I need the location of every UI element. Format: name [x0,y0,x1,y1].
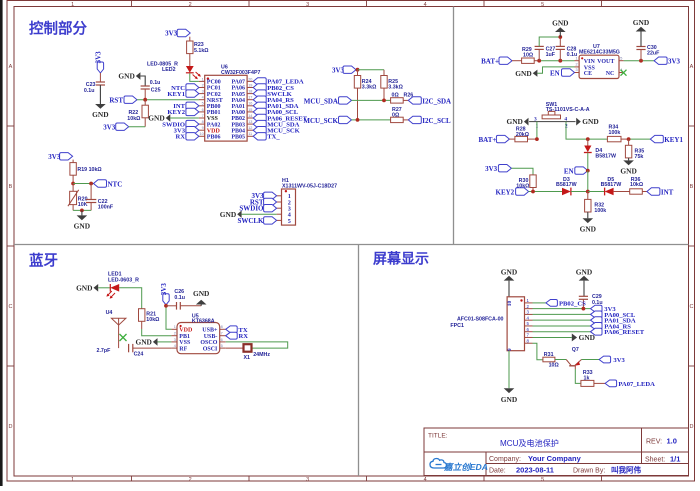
svg-text:GND: GND [552,19,568,28]
svg-text:A: A [690,64,694,70]
wire SDA [352,99,391,101]
svg-text:PB01: PB01 [207,110,221,116]
wire 3V3 to C23 [99,73,101,82]
net flag PA04_RS (FPC1) [533,323,632,331]
svg-text:10: 10 [507,301,513,307]
diode D4 B5817W [584,139,616,160]
junction (C28/rail) [558,59,562,63]
svg-text:3V3: 3V3 [332,66,345,74]
svg-text:LED-0603_R: LED-0603_R [108,277,139,283]
junction (R30/KEY2) [531,190,535,194]
crystal X1 24MHz [226,344,271,361]
svg-text:1: 1 [202,77,204,81]
svg-text:19: 19 [248,83,252,87]
wire R21 to PB1 [142,321,172,335]
junction (R35/rail) [627,137,631,141]
resistor R31 10ohm [543,352,566,368]
svg-text:I2C_SDA: I2C_SDA [422,97,451,105]
svg-text:3V3: 3V3 [103,124,116,132]
junction (C30/VOUT) [639,59,643,63]
zone letters left [9,64,13,430]
net flag PA06_RESET (FPC1) [533,328,645,336]
svg-text:EN: EN [564,168,574,176]
net flag PB02_CS (FPC1) [533,300,587,308]
title block Date [489,465,641,475]
junction (C22/NTC) [89,182,93,186]
wire 3V3 to R25 [358,69,385,71]
svg-text:FPC1: FPC1 [450,323,464,329]
svg-text:1uF: 1uF [546,52,556,58]
power flag 3V3 (Q7) [599,356,625,364]
svg-text:4: 4 [174,344,176,348]
power flag 3V3 (R23) [165,29,190,37]
svg-text:3V3: 3V3 [48,153,61,161]
svg-text:1: 1 [71,2,74,8]
svg-text:20kΩ: 20kΩ [516,132,530,138]
svg-text:9: 9 [202,126,204,130]
svg-text:3V3: 3V3 [485,165,498,173]
svg-text:PC02: PC02 [207,92,221,98]
zone ticks left [7,126,14,366]
svg-text:PA02: PA02 [207,122,221,128]
svg-text:PB03: PB03 [231,122,245,128]
svg-text:GND: GND [220,210,236,219]
wire D3 to center [571,191,588,193]
svg-text:PA05: PA05 [231,92,245,98]
wire SCL [352,119,391,121]
capacitor C22 100nF [86,184,114,211]
wire 3V3 to R19 [72,160,74,163]
capacitor C26 0.1u [166,289,201,309]
antenna U4 [106,310,126,348]
svg-text:MCU_SDA: MCU_SDA [304,97,338,105]
wire 3V3 to VDD [166,305,171,330]
wire NTC node [73,183,93,185]
net flag RX (U5) [226,332,249,340]
ground (FPC1 pin10) [501,267,517,296]
svg-text:18: 18 [248,90,252,94]
section divider vertical top [453,7,455,245]
net flag SWDIO (H1) [239,205,276,213]
svg-text:100nF: 100nF [98,205,114,211]
svg-text:2: 2 [174,332,176,336]
svg-text:1k: 1k [584,376,590,382]
svg-text:9: 9 [507,348,513,351]
svg-text:REV:: REV: [646,439,662,446]
net flag PA07_LEDA (R33) [605,380,655,388]
wire R23 to LED2 [189,54,191,66]
svg-text:2.7pF: 2.7pF [97,348,112,354]
svg-text:PA01: PA01 [231,104,245,110]
net flags U6 right [253,78,266,85]
net flag BAT+ (SW1) [479,135,510,144]
junction (EN node) [586,169,590,173]
svg-text:10: 10 [199,132,203,136]
svg-text:PA00: PA00 [231,110,245,116]
svg-text:7: 7 [221,332,223,336]
capacitor C28 0.1u [556,46,578,60]
svg-text:Company:: Company: [489,456,521,463]
svg-text:USB+: USB+ [202,328,218,334]
net flag RST [109,96,137,104]
svg-text:22uF: 22uF [647,51,660,57]
resistor R36 10k [614,177,647,194]
svg-text:PB06: PB06 [207,135,221,141]
resistor R23 5.1k [187,41,210,54]
LDO U7 ME6214C33M5G [579,55,619,78]
svg-text:11: 11 [248,132,252,136]
resistor R29 10ohm [512,47,539,63]
power flag 3V3 (U7 out) [654,57,680,66]
svg-text:10Ω: 10Ω [549,363,560,369]
svg-text:B5817W: B5817W [601,182,622,188]
transistor Q7 [566,347,581,369]
svg-text:4: 4 [424,477,427,483]
svg-text:B: B [9,184,13,190]
power flag 3V3 (R22) [103,123,145,132]
svg-text:GND: GND [580,225,596,234]
net flag I2C_SDA [408,97,451,106]
resistor R19 10k [70,163,103,176]
svg-text:SWDIO: SWDIO [239,205,264,213]
MCU U6 CW32F003F4P7 [205,75,247,141]
section divider vertical bottom [358,245,360,477]
svg-text:VIN: VIN [584,59,596,65]
LED LED2 LED-0805_R [147,61,201,79]
svg-text:GND: GND [193,289,209,298]
ground (U7 VSS) [515,67,574,78]
svg-text:PC01: PC01 [207,86,221,92]
svg-text:叫我阿伟: 叫我阿伟 [611,465,641,475]
net flags U6 left [186,84,199,91]
svg-text:GND: GND [74,222,90,231]
resistor R32 100k [585,192,607,215]
svg-text:VDD: VDD [207,128,221,134]
svg-text:75k: 75k [635,154,644,160]
ground (C29) [576,267,592,296]
svg-text:SWCLK: SWCLK [237,217,264,225]
svg-text:VOUT: VOUT [597,59,614,65]
svg-text:GND: GND [76,284,92,293]
svg-text:PB00: PB00 [207,104,221,110]
resistor R28 20k [509,127,537,142]
svg-text:KEY1: KEY1 [167,91,185,98]
wire VIN rail [539,60,574,62]
title block Company [489,454,582,463]
svg-text:3V3: 3V3 [668,58,681,66]
svg-text:1.0: 1.0 [667,437,677,446]
no-connect X (U7 NC) [621,70,627,76]
svg-text:B: B [690,184,694,190]
net flag MCU_SCK [303,116,351,125]
resistor R34 100k [607,124,628,141]
wire FPC1 pin2 3V3 [533,308,591,310]
capacitor C24 2.7pF [97,344,172,358]
svg-text:17: 17 [248,96,252,100]
svg-text:8: 8 [221,325,223,329]
svg-text:PB05: PB05 [231,135,245,141]
svg-text:CW32F003F4P7: CW32F003F4P7 [221,70,261,76]
zone ticks bottom [132,476,602,481]
wire center to D5 [588,191,605,193]
svg-text:24MHz: 24MHz [253,352,270,358]
svg-text:100k: 100k [594,208,606,214]
svg-text:I2C_SCL: I2C_SCL [422,117,451,125]
svg-text:4: 4 [202,96,204,100]
svg-text:LED2: LED2 [162,67,176,73]
svg-text:GND: GND [515,69,531,78]
svg-text:蓝牙: 蓝牙 [29,252,58,270]
capacitor C29 0.1u [579,294,603,309]
ground (U6 VSS) [148,114,199,123]
svg-text:VSS: VSS [207,116,219,122]
net flag SWCLK (H1) [237,217,276,225]
svg-text:TITLE:: TITLE: [428,433,448,440]
svg-text:3: 3 [306,2,309,8]
net flag NTC [94,180,123,189]
svg-text:VDD: VDD [179,328,193,334]
svg-text:EN: EN [550,69,560,77]
svg-text:控制部分: 控制部分 [29,20,87,38]
svg-text:GND: GND [620,167,636,176]
svg-text:KEY1: KEY1 [664,136,683,144]
ground (C30) [633,18,649,46]
wire C25 to RST net [144,89,146,100]
svg-text:2: 2 [189,2,192,8]
wire 3V3 to R30 [511,168,533,175]
svg-text:5.1kΩ: 5.1kΩ [194,48,209,54]
capacitor C27 1uF [535,46,556,60]
svg-text:2: 2 [575,63,577,67]
net flag 3V3 (H1) [251,192,276,200]
svg-text:GND: GND [501,267,517,276]
power flag 3V3 (R30) [485,165,511,174]
zone numbers bottom [71,477,544,483]
svg-text:D: D [9,424,13,430]
junction (C29/3V3) [582,307,586,311]
svg-text:MCU_SCK: MCU_SCK [303,117,338,125]
wire R22 to 3V3 [144,118,146,127]
junction (R28/SW1) [535,137,539,141]
svg-text:C: C [9,304,13,310]
svg-text:0.1u: 0.1u [174,295,185,301]
power flag 3V3 (C23) [94,51,103,73]
svg-text:GND: GND [506,117,522,126]
ground (LED1) [76,284,110,293]
ground (C27/C28) [559,32,561,37]
svg-text:3: 3 [306,477,309,483]
title block REV [646,437,677,446]
svg-text:3.3kΩ: 3.3kΩ [388,85,403,91]
svg-text:1/1: 1/1 [670,455,680,464]
svg-text:AFC01-S08FCA-00: AFC01-S08FCA-00 [457,317,504,323]
svg-text:OSCO: OSCO [200,340,217,346]
net flag KEY1 [650,135,683,144]
svg-text:5: 5 [221,344,223,348]
svg-text:GND: GND [118,72,134,81]
svg-text:RF: RF [179,346,187,352]
svg-text:16: 16 [248,102,252,106]
svg-text:BAT+: BAT+ [479,136,497,144]
LED LED1 LED-0603_R [106,272,139,299]
ground (H1 pin4) [220,210,277,219]
wire Q7 to 3V3 [582,359,600,361]
svg-text:14: 14 [248,114,252,118]
net flag TX (U5) [226,326,248,334]
svg-text:屏幕显示: 屏幕显示 [373,251,429,267]
junction (R19/R20) [71,182,75,186]
ground (C25) [118,72,145,86]
wire KEY2 to D3 [529,191,562,193]
ground (R35) [628,158,630,161]
svg-text:3V3: 3V3 [160,283,168,296]
wire R24 to SCL [357,88,359,120]
net flag PA00_SCL (FPC1) [533,311,636,319]
ground (FPC1 pin7) [533,333,596,342]
net flag I2C_SCL [408,116,451,125]
svg-text:6: 6 [221,338,223,342]
svg-text:10kΩ: 10kΩ [630,182,644,188]
svg-text:TX_: TX_ [267,134,280,141]
svg-text:13: 13 [248,120,252,124]
wire C27/C28 tops [539,37,560,46]
wire D4 to EN node [587,153,589,171]
svg-text:CE: CE [584,71,592,77]
svg-text:X1: X1 [244,355,251,361]
svg-text:5: 5 [202,102,204,106]
wire SW1 pin1 [536,122,538,140]
svg-text:USB-: USB- [204,334,218,340]
svg-text:0Ω: 0Ω [392,93,400,99]
svg-text:8: 8 [202,120,204,124]
wire LED2 to PC00 [190,73,199,81]
title block Sheet [645,455,680,464]
svg-text:PA06: PA06 [231,86,245,92]
net flag RST (H1) [250,198,277,206]
svg-text:Your Company: Your Company [528,454,582,463]
chip U5 KT6368A [177,323,220,354]
svg-text:PA07: PA07 [231,80,245,86]
junction (R24/SCL) [356,118,360,122]
capacitor C25 [141,80,161,94]
resistor R30 10k [516,175,536,190]
svg-text:VSS: VSS [179,340,191,346]
net flag EN (keys) [564,167,588,176]
svg-text:1: 1 [575,56,577,60]
svg-text:2: 2 [189,477,192,483]
svg-text:ME6214C33M5G: ME6214C33M5G [579,50,620,56]
junction (RST/C25/R22) [143,98,147,102]
svg-text:5: 5 [288,218,291,225]
net flag MCU_SDA [304,97,352,106]
svg-text:GND: GND [92,110,108,119]
svg-text:GND: GND [135,338,151,347]
ground (SW1 pin3) [524,118,529,126]
svg-text:10Ω: 10Ω [523,53,534,59]
svg-text:MCU及电池保护: MCU及电池保护 [500,438,559,448]
power flag 3V3 (R19) [48,153,72,162]
capacitor C23 [84,82,105,94]
svg-text:OSCI: OSCI [203,346,218,352]
power flag 3V3 (U5) [160,283,169,305]
wire SW1 pin2 to rail [566,122,607,140]
svg-text:U4: U4 [106,310,113,316]
screen edge bar [0,0,3,486]
section divider horizontal [14,244,689,246]
svg-text:KEY2: KEY2 [496,188,515,196]
junction (keys center) [586,190,590,194]
connector FPC1 AFC01-S08FCA-00 [507,297,524,351]
svg-text:RST: RST [109,96,123,104]
junction (C27/rail) [537,59,541,63]
ground (C26) [193,289,209,306]
svg-text:INT: INT [661,188,674,196]
svg-text:Sheet:: Sheet: [645,457,665,464]
svg-text:GND: GND [582,117,598,126]
svg-text:3V3: 3V3 [613,357,625,364]
wire FPC1 pin9 to ground [508,351,510,389]
svg-text:3.3kΩ: 3.3kΩ [362,85,377,91]
svg-text:3V3: 3V3 [165,30,178,38]
ground (FPC1 pin9) [501,388,517,404]
svg-text:D: D [690,424,694,430]
zone ticks top [132,1,602,7]
net flag BAT+ (U7) [481,57,512,66]
junction (3V3/R24) [356,68,360,72]
svg-text:1: 1 [71,477,74,483]
svg-text:GND: GND [501,395,517,404]
svg-text:PA04: PA04 [231,98,245,104]
svg-text:100k: 100k [609,130,621,136]
svg-text:NRST: NRST [207,98,223,104]
svg-text:NC: NC [606,71,615,77]
wire 3V3 to R23 [189,37,191,41]
svg-text:PB02_CS: PB02_CS [559,300,586,307]
svg-text:KT6368A: KT6368A [192,319,215,325]
svg-text:NTC: NTC [108,180,123,188]
svg-text:Drawn By:: Drawn By: [573,468,605,475]
svg-text:PA07_LEDA: PA07_LEDA [618,381,655,388]
junction (3V3/C26) [164,304,168,308]
wire R20/C22 to ground [73,203,91,211]
wire OSCO loop [226,342,288,348]
resistor R35 75k [625,139,644,160]
wire FPC1 pin8 to R31 [533,343,543,360]
svg-text:R19 10kΩ: R19 10kΩ [77,167,102,173]
ground (U5 VSS) [135,338,171,347]
svg-text:3: 3 [174,338,176,342]
svg-text:2: 2 [202,83,204,87]
ground (R32) [587,212,589,218]
junction (D4/rail) [586,137,590,141]
ground (R20/C22) [81,210,83,215]
zone letters right [690,64,694,430]
svg-text:6: 6 [202,108,204,112]
diode D5 B5817W [601,177,622,196]
logo 嘉立创EDA [430,459,488,472]
svg-text:RX: RX [175,134,185,141]
svg-text:10kΩ: 10kΩ [127,116,141,122]
resistor R33 1k [581,370,605,386]
svg-text:Q7: Q7 [572,347,579,353]
resistor R21 10k [139,309,161,323]
svg-text:PB04: PB04 [231,128,245,134]
svg-text:GND: GND [576,267,592,276]
power flag 3V3 (I2C) [332,66,356,74]
net flag INT [647,188,674,197]
svg-text:A: A [9,64,13,70]
resistor R26 0ohm [391,93,414,104]
